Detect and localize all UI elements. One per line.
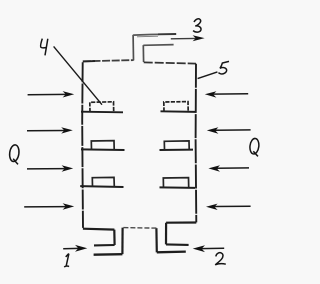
tray row3 left box [92,177,114,186]
vessel bottom edge middle [123,227,157,230]
arrow Q right 2 shaft [215,129,251,131]
vessel top edge left corner segment [83,60,95,62]
tray row3 right baseline [160,186,196,189]
arrow Q right 3 head [208,165,220,171]
label 2 [215,253,226,265]
arrow Q right 4 head [206,204,218,210]
label 3 [193,19,201,32]
left inlet pipe channel top wall [94,244,115,246]
arrow Q left 1 shaft [28,93,66,95]
vessel top edge left [83,60,134,61]
vessel left wall [81,62,84,228]
tray row3 right box [163,178,188,188]
tray row1 right baseline [161,110,196,113]
arrow 2 shaft [202,247,225,249]
arrow Q right 1 shaft [213,93,248,95]
arrow 1 shaft [63,247,78,249]
tray row1 left box [90,102,114,112]
label Q left [9,144,20,164]
vessel bottom edge left [83,228,115,231]
arrow Q left 1 head [63,91,75,97]
arrow Q left 3 head [62,165,74,171]
vessel bottom edge right [166,221,196,223]
outlet chimney outer top wall [133,33,159,36]
right inlet pipe inner wall [155,228,158,252]
arrow Q right 1 head [205,91,217,97]
arrow 1 head [75,245,87,252]
arrow Q right 3 shaft [217,167,249,169]
label 1 [64,254,69,268]
outlet chimney outer wall [132,35,134,61]
arrow Q left 4 shaft [24,206,66,208]
tray row3 left baseline [80,185,123,188]
arrow Q left 2 head [61,127,73,133]
vessel right wall [195,64,198,223]
vessel top edge right [144,62,196,63]
arrow 3 head [193,35,205,41]
arrow 3 shaft [171,37,196,39]
right inlet pipe channel bottom wall [157,250,186,253]
left inlet pipe inner wall [121,228,123,255]
tray row1 left baseline [81,111,123,114]
outlet chimney inner wall [142,45,144,62]
tray row1 right box [164,102,188,112]
arrow Q right 4 shaft [214,205,250,207]
arrow Q left 2 shaft [27,130,65,132]
tray row2 left baseline [81,148,125,151]
arrow 2 head [193,245,205,252]
tray row2 left box [91,141,114,150]
right inlet pipe outer wall [165,223,167,245]
arrow Q left 4 head [63,203,75,209]
right inlet pipe channel top wall [166,243,189,246]
left inlet pipe outer wall [113,230,115,245]
label 4 leader line [54,46,102,104]
tray row2 right baseline [160,149,194,151]
tray row2 right box [164,141,189,150]
outlet chimney inner top wall [143,44,173,47]
label 5 [219,61,230,74]
label 4 [41,39,48,56]
left inlet pipe channel bottom wall [94,253,123,256]
label Q right [249,138,260,156]
label 5 leader line [198,72,218,79]
arrow Q right 2 head [207,127,219,133]
arrow Q left 3 shaft [27,168,65,170]
